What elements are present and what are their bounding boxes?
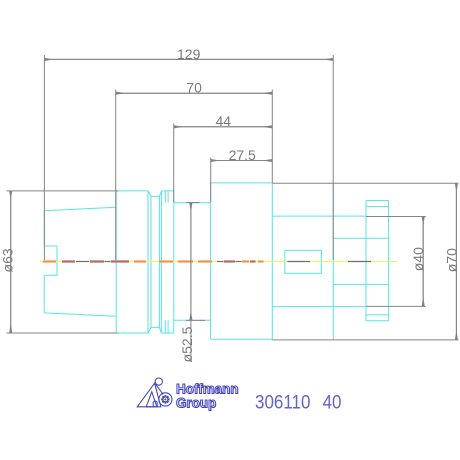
- svg-text:ø40: ø40: [410, 247, 426, 271]
- svg-text:27.5: 27.5: [229, 147, 256, 163]
- svg-text:44: 44: [216, 113, 232, 129]
- svg-text:ø52.5: ø52.5: [179, 326, 195, 362]
- svg-text:129: 129: [177, 46, 201, 62]
- svg-text:70: 70: [186, 80, 202, 96]
- svg-text:Hoffmann: Hoffmann: [176, 382, 238, 397]
- svg-text:ø63: ø63: [0, 248, 15, 272]
- svg-text:Group: Group: [176, 395, 216, 410]
- svg-text:306110: 306110: [255, 390, 310, 412]
- svg-text:ø70: ø70: [443, 248, 459, 272]
- svg-text:40: 40: [323, 390, 342, 412]
